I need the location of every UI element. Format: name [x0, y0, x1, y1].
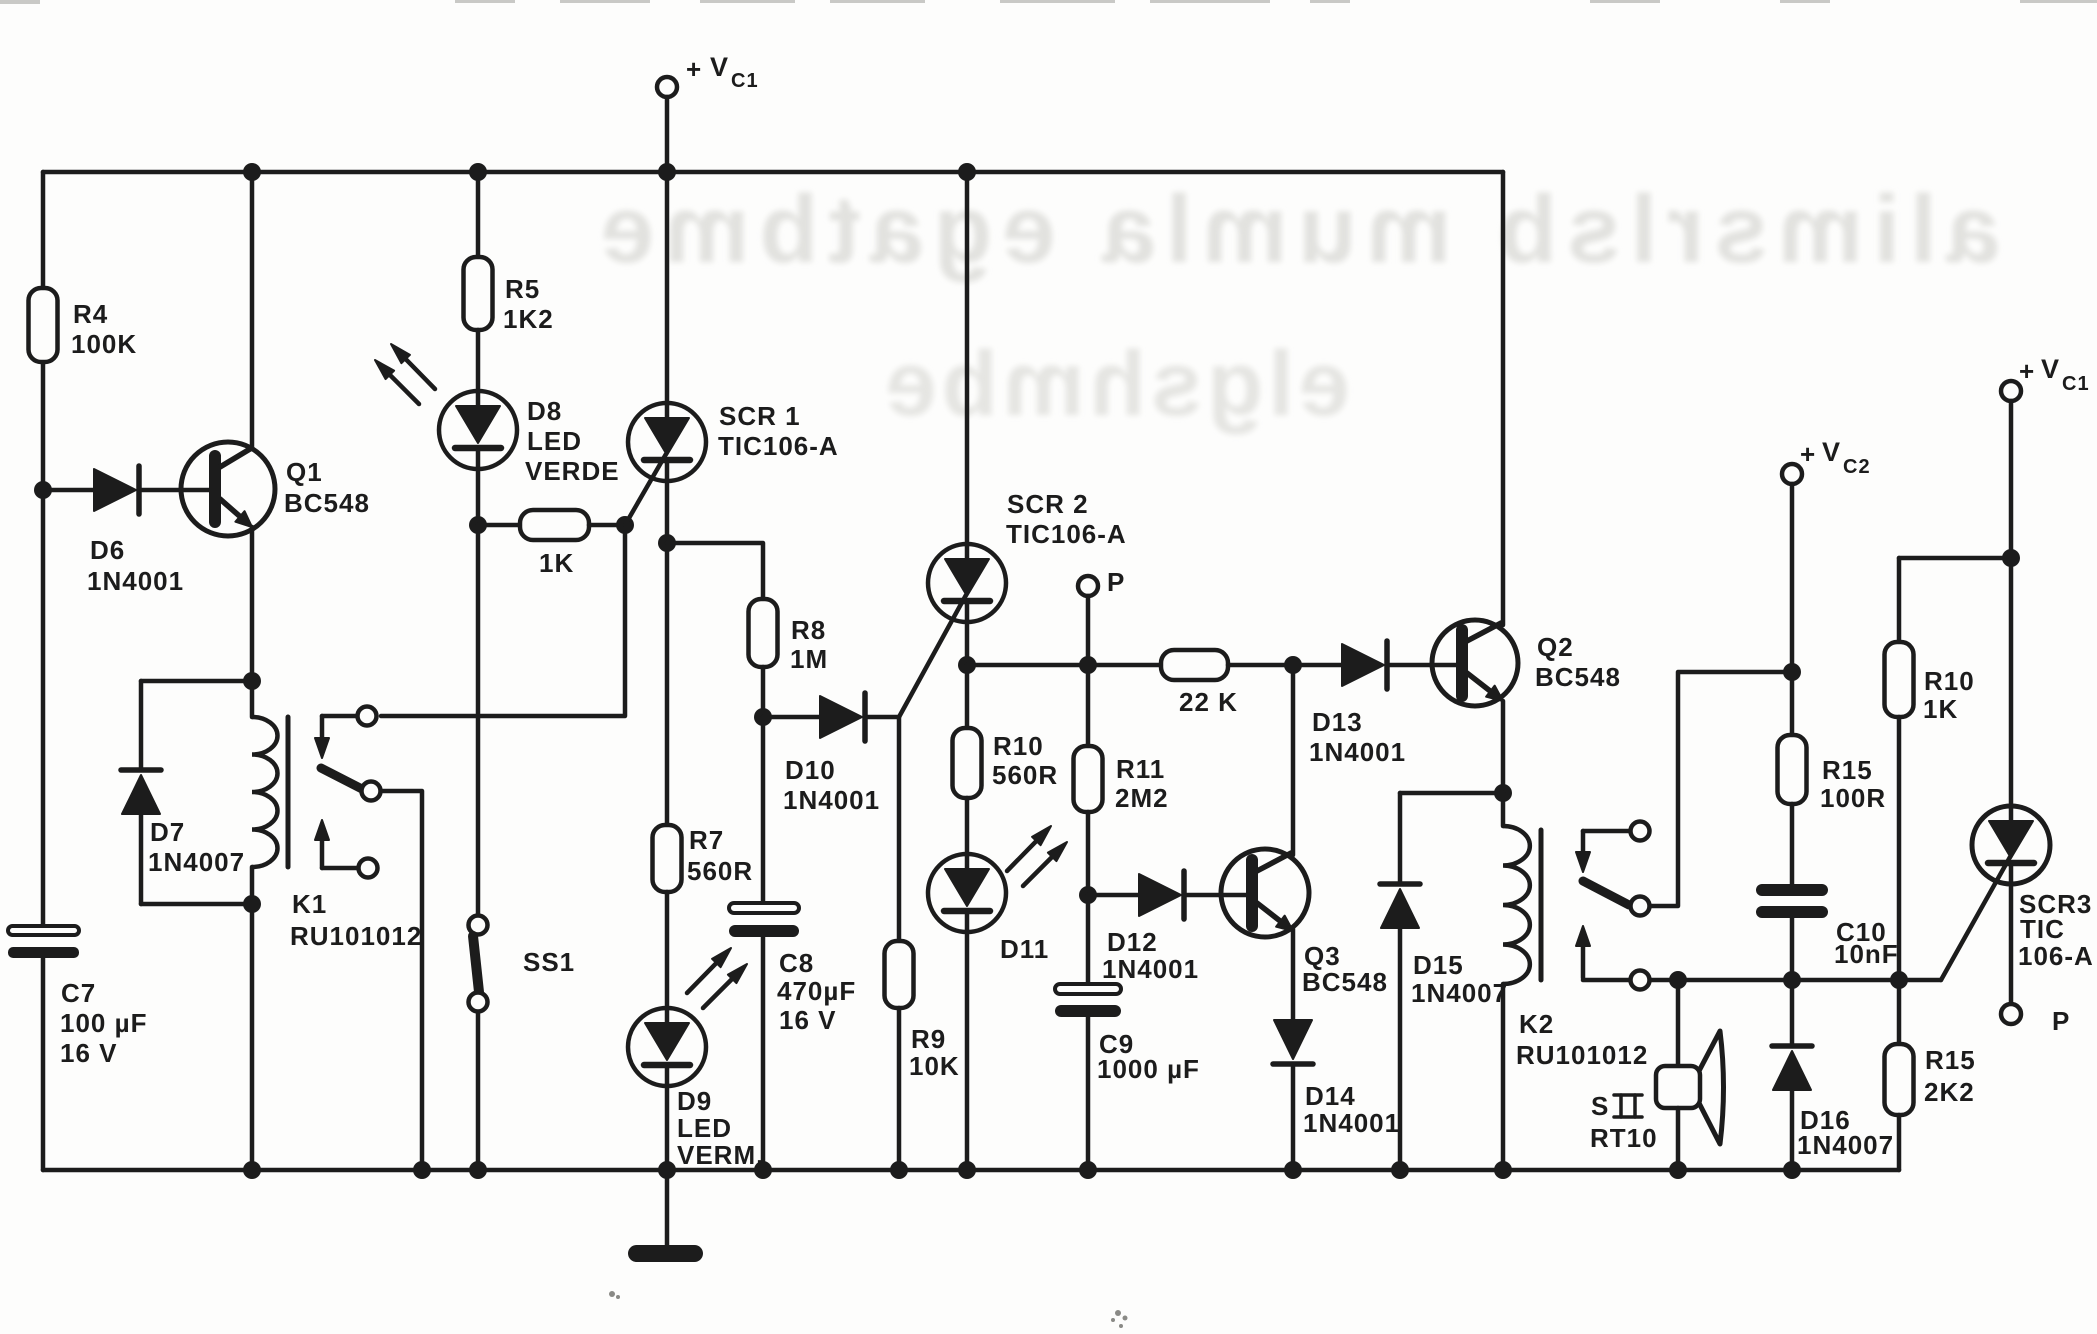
svg-text:1K: 1K [1923, 694, 1958, 724]
wire R10-1K top [1899, 556, 2011, 561]
svg-text:D15: D15 [1413, 950, 1464, 980]
svg-text:K2: K2 [1519, 1009, 1554, 1039]
wire D15 to bus [1398, 928, 1403, 1170]
svg-text:P: P [2052, 1006, 2070, 1036]
diode D12 [1088, 871, 1253, 919]
wire left edge (R4/C7 column upper) [41, 172, 46, 490]
scr SCR2 [928, 544, 1006, 622]
svg-text:V: V [1822, 437, 1841, 467]
wire R10-1K drop [1897, 558, 1902, 642]
svg-text:R15: R15 [1822, 755, 1873, 785]
wire Q1 collector [250, 172, 255, 449]
relay K2 coil [1503, 793, 1541, 1170]
relay K1 coil [252, 681, 288, 904]
node speaker tap [1669, 971, 1687, 989]
svg-text:BC548: BC548 [284, 488, 370, 518]
svg-text:VERM.: VERM. [677, 1140, 764, 1170]
wire D7 top link [141, 679, 252, 684]
wire top supply bus [43, 170, 1503, 175]
node SCR2 cathode [958, 656, 976, 674]
wire SCR1 column mid [665, 543, 670, 825]
label SS1 [523, 947, 575, 977]
speaker SII horn [1699, 1031, 1724, 1144]
svg-text:RU101012: RU101012 [1516, 1040, 1648, 1070]
diode D15 [1380, 884, 1420, 928]
node Q2 emitter [1494, 784, 1512, 802]
terminal +VC2 [1782, 464, 1802, 672]
led D9 arrows [687, 948, 747, 1008]
label R8 1M [790, 615, 828, 674]
wire VC2 to R15 [1790, 672, 1795, 735]
capacitor C7 [8, 926, 79, 958]
wire Q1 emitter to K1 [250, 527, 255, 681]
transistor Q1 [181, 442, 275, 536]
wire R9 to bus [897, 1008, 902, 1170]
svg-text:RU101012: RU101012 [290, 921, 422, 951]
wire K1 common to bus [381, 791, 422, 1170]
node SCR1 gate [616, 516, 634, 534]
capacitor C8 [729, 903, 799, 937]
wire K1 NC elbow + arrow [315, 716, 357, 758]
svg-text:10K: 10K [909, 1051, 960, 1081]
wire left edge to C7 [41, 490, 46, 926]
label D7 1N4007 [148, 817, 245, 877]
resistor R10 1K [1885, 642, 1914, 717]
diode D16 [1772, 1046, 1812, 1090]
wire D16 to bus [1790, 1090, 1795, 1170]
node Q3 collector tap [1284, 656, 1302, 674]
wire SCR3 gate lead [1941, 857, 2010, 980]
svg-text:V: V [2041, 354, 2060, 384]
svg-text:1K2: 1K2 [503, 304, 554, 334]
wire C7 to bottom bus [41, 954, 46, 1170]
svg-text:100R: 100R [1820, 783, 1886, 813]
node R15 tap [1890, 971, 1908, 989]
diode D14 [1273, 1020, 1313, 1064]
node R5 top [469, 163, 487, 181]
resistor R11 2M2 [1074, 746, 1103, 812]
svg-text:100K: 100K [71, 329, 137, 359]
node K1 coil top [243, 672, 261, 690]
label D11 [1000, 934, 1049, 964]
label R15 2K2 [1924, 1045, 1976, 1107]
svg-text:+: + [1800, 439, 1816, 469]
svg-text:560R: 560R [992, 760, 1058, 790]
svg-text:C1: C1 [2062, 373, 2090, 395]
wire D7 anode drop [139, 681, 144, 770]
contact K1 NO + arrow [315, 820, 378, 878]
svg-text:Q1: Q1 [286, 457, 323, 487]
resistor R9 [885, 941, 914, 1008]
wire bottom ground bus [43, 1168, 1899, 1173]
svg-text:+: + [2019, 356, 2035, 386]
wire lower bus [1650, 978, 1941, 983]
wire ground stub [665, 1170, 670, 1248]
wire D14 to bus [1291, 1064, 1296, 1170]
transistor Q2 [1432, 620, 1518, 706]
svg-text:R4: R4 [73, 299, 108, 329]
svg-text:C1: C1 [731, 70, 759, 92]
label R9 10K [909, 1024, 960, 1081]
wire D15 anode drop [1398, 793, 1403, 884]
svg-text:100 µF: 100 µF [60, 1008, 147, 1038]
svg-text:1N4001: 1N4001 [87, 566, 184, 596]
node C10 tap [1783, 971, 1801, 989]
svg-text:D8: D8 [527, 396, 562, 426]
node K1 coil bottom [243, 895, 261, 913]
wire R10 link [965, 665, 970, 728]
wire C9 to bus [1086, 1017, 1091, 1170]
label D14 1N4001 [1303, 1081, 1400, 1138]
svg-text:RT10: RT10 [1590, 1123, 1658, 1153]
resistor R4 [29, 288, 58, 362]
node Q1 collector bus [243, 163, 261, 181]
wire R7 to D9 [665, 892, 670, 1008]
node R9 bus [890, 1161, 908, 1179]
svg-text:1N4001: 1N4001 [1303, 1108, 1400, 1138]
decorative bottom specks [609, 1291, 1128, 1328]
wire SCR3 cathode [2009, 884, 2014, 1004]
svg-text:R11: R11 [1116, 754, 1165, 784]
wire R11 top link [1086, 665, 1091, 746]
label 1K [539, 548, 574, 578]
capacitor C9 [1055, 984, 1121, 1017]
svg-text:VERDE: VERDE [525, 456, 620, 486]
wire C9 drop [1086, 895, 1091, 984]
label D8 LED VERDE [525, 396, 620, 486]
wire SCR2 anode [965, 172, 970, 544]
wire speaker to bus [1676, 1108, 1681, 1170]
wire SCR2 cathode [965, 622, 970, 665]
node D15 bus [1391, 1161, 1409, 1179]
node SCR2 anode bus [958, 163, 976, 181]
svg-text:560R: 560R [687, 856, 753, 886]
contact K2 NC [1631, 822, 1650, 841]
svg-text:P: P [1107, 567, 1125, 597]
svg-text:V: V [710, 52, 729, 82]
wire R15 to C10 [1790, 804, 1795, 886]
svg-text:LED: LED [677, 1113, 732, 1143]
node D10 anode [754, 708, 772, 726]
svg-text:TIC: TIC [2020, 914, 2065, 944]
wire R11 to D12 node [1086, 812, 1091, 895]
node top bus / VC1 [658, 163, 676, 181]
diode D7 [121, 770, 161, 814]
wire D6 anode [43, 488, 94, 493]
contact K2 NO + arrow [1576, 926, 1650, 990]
wire R5 top [476, 172, 481, 257]
label K1 RU101012 [290, 889, 422, 951]
svg-text:1N4007: 1N4007 [1411, 978, 1508, 1008]
transistor Q3 [1221, 849, 1309, 937]
diode D13 [1342, 641, 1463, 689]
node A (D6 tap) [34, 481, 52, 499]
decorative top-edge marks [0, 0, 2097, 4]
label D6 1N4001 [87, 535, 184, 596]
svg-text:R10: R10 [1924, 666, 1975, 696]
led D8 [439, 391, 517, 469]
wire gate node to K1 NC [381, 525, 625, 716]
label +VC2 [1800, 437, 1871, 478]
node D16 bus [1783, 1161, 1801, 1179]
speaker SII body [1656, 1066, 1700, 1108]
svg-text:470µF: 470µF [777, 976, 856, 1006]
svg-text:106-A: 106-A [2018, 941, 2094, 971]
node D12 anode [1079, 886, 1097, 904]
wire Q3 collector [1291, 665, 1296, 855]
svg-text:SCR 1: SCR 1 [719, 401, 801, 431]
svg-text:D9: D9 [677, 1086, 712, 1116]
svg-text:1N4001: 1N4001 [1309, 737, 1406, 767]
label SII RT10 [1590, 1091, 1658, 1153]
node speaker bus [1669, 1161, 1687, 1179]
wire SS1 to bus [476, 1012, 481, 1170]
svg-text:D13: D13 [1312, 707, 1363, 737]
wire R15-2K2 to bus [1897, 1115, 1902, 1170]
wire R5 to D8 [476, 330, 481, 391]
label K2 RU101012 [1516, 1009, 1648, 1070]
led D9 [628, 1008, 706, 1086]
wire D9 to bus [665, 1086, 670, 1170]
svg-text:1N4007: 1N4007 [148, 847, 245, 877]
terminal P mid [1078, 576, 1098, 665]
wire D11 to bus [965, 932, 970, 1170]
svg-text:D6: D6 [90, 535, 125, 565]
svg-text:D12: D12 [1107, 927, 1158, 957]
node K1 column bus [243, 1161, 261, 1179]
resistor 22K [1161, 650, 1228, 680]
wire R15-2K2 link [1897, 980, 1902, 1044]
resistor R15 100R [1778, 735, 1807, 804]
wire speaker drop [1676, 980, 1681, 1066]
svg-text:Q2: Q2 [1537, 632, 1574, 662]
svg-text:D10: D10 [785, 755, 836, 785]
label +VC1 right [2019, 354, 2090, 395]
label D9 LED VERM. [677, 1086, 764, 1170]
scr SCR1 [628, 403, 706, 481]
contact K2 common [1631, 897, 1650, 916]
resistor R7 [653, 825, 682, 892]
wire C10 to lower bus [1790, 918, 1795, 980]
label SCR1 TIC106-A [718, 401, 839, 461]
svg-text:+: + [686, 54, 702, 84]
label D15 1N4007 [1411, 950, 1508, 1008]
label SCR2 TIC106-A [1006, 489, 1127, 549]
label Q2 BC548 [1535, 632, 1621, 692]
wire R10-1K to lower bus [1897, 717, 1902, 980]
label R10 560R [992, 731, 1058, 790]
svg-text:SCR 2: SCR 2 [1007, 489, 1089, 519]
svg-text:BC548: BC548 [1535, 662, 1621, 692]
svg-text:1N4001: 1N4001 [783, 785, 880, 815]
led D11 arrows [1007, 826, 1067, 886]
svg-text:R7: R7 [689, 825, 724, 855]
wire SS1 column [476, 525, 481, 915]
diode D6 [94, 466, 139, 514]
svg-text:1M: 1M [790, 644, 828, 674]
svg-text:C8: C8 [779, 948, 814, 978]
svg-text:SS1: SS1 [523, 947, 575, 977]
svg-text:2K2: 2K2 [1924, 1077, 1975, 1107]
svg-text:BC548: BC548 [1302, 967, 1388, 997]
wire Q2 emitter [1501, 701, 1506, 793]
resistor R8 [749, 599, 778, 667]
scr SCR3 [1972, 806, 2050, 884]
wire SCR1 cathode [665, 481, 670, 543]
svg-text:1K: 1K [539, 548, 574, 578]
label C10 10nF [1834, 917, 1899, 969]
label R15 100R [1820, 755, 1886, 813]
label Q1 BC548 [284, 457, 370, 518]
svg-text:R15: R15 [1925, 1045, 1976, 1075]
label D16 1N4007 [1797, 1105, 1894, 1160]
wire K2 NC elbow + arrow [1576, 831, 1630, 872]
switch K2 arm [1583, 881, 1629, 905]
svg-text:alimsrlsb mumla egatbme: alimsrlsb mumla egatbme [591, 176, 2000, 283]
terminal P bottom [2001, 1004, 2021, 1024]
svg-text:C2: C2 [1843, 456, 1871, 478]
node D14 bus [1284, 1161, 1302, 1179]
label Q3 BC548 [1302, 941, 1388, 997]
terminal +VC1 top [657, 77, 677, 172]
svg-text:R8: R8 [791, 615, 826, 645]
node VC1 right link [2002, 549, 2020, 567]
node C9 bus [1079, 1161, 1097, 1179]
node SCR1 cathode [658, 534, 676, 552]
decorative bleed-through [591, 176, 2000, 435]
wire VC1 to SCR3 [2009, 558, 2014, 806]
resistor R10 560R [953, 728, 982, 798]
wire K1 column to bus [250, 904, 255, 1170]
label C9 1000uF [1097, 1029, 1200, 1084]
wire SCR1 anode [665, 172, 670, 403]
led D8 arrows [375, 344, 435, 404]
svg-text:1000 µF: 1000 µF [1097, 1054, 1200, 1084]
led D11 [928, 854, 1006, 932]
svg-text:2M2: 2M2 [1115, 783, 1169, 813]
label R11 2M2 [1115, 754, 1169, 813]
node K1 common bus [413, 1161, 431, 1179]
switch SS1 [469, 916, 488, 1012]
label D10 1N4001 [783, 755, 880, 815]
resistor R5 [464, 257, 493, 330]
svg-text:S: S [1591, 1091, 1609, 1121]
label C7 100uF 16V [60, 978, 147, 1068]
resistor R15 2K2 [1885, 1044, 1914, 1115]
wire SCR1 cathode to R8 [667, 543, 763, 599]
svg-text:16 V: 16 V [60, 1038, 118, 1068]
wire R9 drop [897, 717, 902, 941]
wire D8 to 1K node [476, 469, 481, 525]
label R4 100K [71, 299, 137, 359]
wire SCR2 cathode to 22K [967, 663, 1163, 668]
label R7 560R [687, 825, 753, 886]
contact K1 NC [358, 707, 377, 726]
svg-text:LED: LED [527, 426, 582, 456]
wire R8 to D10 node [761, 667, 766, 717]
wire D6 cathode to Q1 base [141, 488, 215, 493]
svg-text:D7: D7 [150, 817, 185, 847]
node SS1 bus [469, 1161, 487, 1179]
switch K1 arm [321, 768, 362, 789]
svg-text:10nF: 10nF [1834, 939, 1899, 969]
label R10 1K [1923, 666, 1975, 724]
svg-text:R10: R10 [993, 731, 1044, 761]
contact K1 common [362, 782, 381, 801]
label P bottom [2052, 1006, 2070, 1036]
terminal +VC1 right [2001, 381, 2021, 558]
node 1K left [469, 516, 487, 534]
label 22 K [1179, 687, 1238, 717]
label C8 470uF 16V [777, 948, 856, 1035]
wire K2 common up [1650, 672, 1792, 906]
svg-text:1N4001: 1N4001 [1102, 954, 1199, 984]
wire Q3 emitter [1291, 929, 1296, 1022]
wire C8 drop [761, 717, 766, 903]
wire D16 drop [1790, 980, 1795, 1046]
svg-text:TIC106-A: TIC106-A [1006, 519, 1127, 549]
svg-text:R9: R9 [911, 1024, 946, 1054]
wire D15 top link [1400, 791, 1503, 796]
svg-text:K1: K1 [292, 889, 327, 919]
node C8 bus [754, 1161, 772, 1179]
svg-text:D14: D14 [1305, 1081, 1356, 1111]
diode D10 [763, 693, 899, 741]
capacitor C10 [1756, 884, 1828, 918]
svg-text:C7: C7 [61, 978, 96, 1008]
wire D7 bottom [141, 814, 252, 904]
wire SCR1 gate lead [625, 454, 666, 525]
node VC2 link [1783, 663, 1801, 681]
wire R10 to D11 [965, 798, 970, 854]
label +VC1 top [686, 52, 759, 92]
resistor 1K (SCR1 gate) [478, 510, 625, 540]
wire Q2 collector [1501, 172, 1506, 625]
label D13 1N4001 [1309, 707, 1406, 767]
node R11 top [1079, 656, 1097, 674]
wire 22K to D13 [1228, 663, 1342, 668]
label SCR3 TIC 106-A [2018, 889, 2094, 971]
svg-text:TIC106-A: TIC106-A [718, 431, 839, 461]
wire SCR2 gate lead [899, 595, 966, 717]
label R5 1K2 [503, 274, 554, 334]
svg-text:D11: D11 [1000, 934, 1049, 964]
svg-text:16 V: 16 V [779, 1005, 837, 1035]
node D11 bus [958, 1161, 976, 1179]
svg-text:22 K: 22 K [1179, 687, 1238, 717]
node K2 coil bus [1494, 1161, 1512, 1179]
label P mid [1107, 567, 1125, 597]
node ground tap [658, 1161, 676, 1179]
svg-text:elgshmbe: elgshmbe [881, 333, 1350, 435]
label D12 1N4001 [1102, 927, 1199, 984]
wire C8 to bus [761, 937, 766, 1170]
svg-text:R5: R5 [505, 274, 540, 304]
ground [628, 1245, 703, 1262]
svg-text:1N4007: 1N4007 [1797, 1130, 1894, 1160]
